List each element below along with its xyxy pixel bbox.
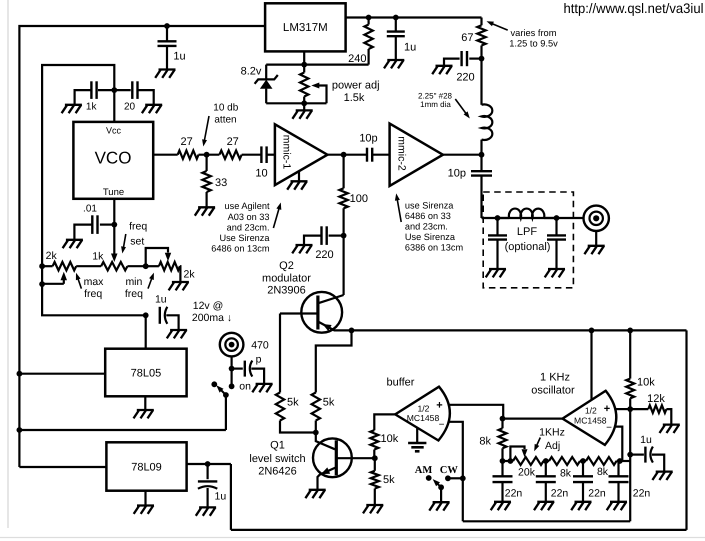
svg-text:8k: 8k xyxy=(560,468,572,480)
svg-text:10p: 10p xyxy=(359,133,377,145)
svg-text:22n: 22n xyxy=(588,488,606,500)
svg-text:22n: 22n xyxy=(551,488,569,500)
svg-text:2k: 2k xyxy=(46,250,58,262)
svg-text:+: + xyxy=(604,403,610,415)
svg-text:20k: 20k xyxy=(518,467,536,479)
svg-text:LPF: LPF xyxy=(517,226,537,238)
svg-text:−: − xyxy=(439,420,445,431)
svg-text:20: 20 xyxy=(124,102,136,113)
svg-text:VCO: VCO xyxy=(95,149,132,168)
svg-text:8.2v: 8.2v xyxy=(241,66,262,78)
svg-text:1u: 1u xyxy=(215,491,227,503)
svg-text:level switch: level switch xyxy=(249,453,305,465)
svg-text:22n: 22n xyxy=(505,488,523,500)
svg-text:240: 240 xyxy=(348,53,366,65)
svg-text:AM: AM xyxy=(415,465,433,476)
svg-text:varies from: varies from xyxy=(511,28,557,38)
svg-text:use Sirenza: use Sirenza xyxy=(405,200,454,210)
svg-text:67: 67 xyxy=(461,32,473,44)
svg-text:1u: 1u xyxy=(640,434,652,446)
svg-text:200ma ↓: 200ma ↓ xyxy=(192,312,232,324)
svg-text:1/2: 1/2 xyxy=(585,406,597,416)
svg-text:LM317M: LM317M xyxy=(283,22,328,34)
svg-text:1KHz: 1KHz xyxy=(539,427,565,439)
svg-text:Tune: Tune xyxy=(103,187,124,198)
svg-text:1u: 1u xyxy=(155,294,167,306)
svg-text:8k: 8k xyxy=(479,436,491,448)
svg-text:+: + xyxy=(436,400,442,412)
svg-text:p: p xyxy=(256,354,262,366)
svg-text:1/2: 1/2 xyxy=(418,404,430,414)
svg-text:Vcc: Vcc xyxy=(106,126,122,136)
svg-text:22n: 22n xyxy=(633,488,651,500)
svg-text:2k: 2k xyxy=(184,269,196,281)
svg-text:8k: 8k xyxy=(597,466,609,478)
svg-text:10k: 10k xyxy=(637,377,655,389)
svg-text:5k: 5k xyxy=(287,397,299,409)
svg-text:27: 27 xyxy=(180,136,192,148)
svg-text:10p: 10p xyxy=(448,168,466,180)
svg-text:.01: .01 xyxy=(83,204,97,215)
svg-text:33: 33 xyxy=(215,177,227,189)
svg-text:2N6426: 2N6426 xyxy=(258,466,297,478)
svg-text:Q2: Q2 xyxy=(279,260,294,272)
svg-text:6486 on 13cm: 6486 on 13cm xyxy=(211,244,270,254)
svg-text:12v @: 12v @ xyxy=(193,300,224,312)
svg-text:atten: atten xyxy=(214,115,236,126)
svg-text:470: 470 xyxy=(251,340,269,352)
svg-text:1mm dia: 1mm dia xyxy=(420,100,451,109)
svg-text:220: 220 xyxy=(456,72,474,84)
svg-text:1 KHz: 1 KHz xyxy=(540,372,570,384)
svg-text:mmic-1: mmic-1 xyxy=(281,135,293,170)
svg-text:freq: freq xyxy=(129,221,147,233)
svg-text:1.5k: 1.5k xyxy=(344,92,365,104)
svg-text:1u: 1u xyxy=(173,51,185,63)
svg-text:10k: 10k xyxy=(381,433,399,445)
svg-text:78L09: 78L09 xyxy=(131,462,162,474)
svg-text:6486 on 33: 6486 on 33 xyxy=(405,211,451,221)
svg-text:12k: 12k xyxy=(647,393,665,405)
svg-text:1k: 1k xyxy=(86,102,98,113)
svg-text:freq: freq xyxy=(84,288,102,300)
svg-text:A03 on 33: A03 on 33 xyxy=(228,212,270,222)
svg-text:http://www.qsl.net/va3iul: http://www.qsl.net/va3iul xyxy=(564,1,704,16)
svg-text:CW: CW xyxy=(440,465,459,476)
svg-text:220: 220 xyxy=(315,249,333,261)
svg-text:(optional): (optional) xyxy=(505,241,551,253)
svg-text:5k: 5k xyxy=(323,397,335,409)
svg-text:−: − xyxy=(606,423,612,434)
svg-text:Adj: Adj xyxy=(545,440,560,452)
svg-text:27: 27 xyxy=(227,136,239,148)
svg-text:use Agilent: use Agilent xyxy=(225,201,270,211)
svg-text:on: on xyxy=(239,381,251,393)
svg-text:MC1458: MC1458 xyxy=(574,415,607,425)
svg-text:mmic-2: mmic-2 xyxy=(396,136,408,171)
svg-text:power adj: power adj xyxy=(332,80,380,92)
svg-text:2N3906: 2N3906 xyxy=(267,285,306,297)
svg-text:and 23cm.: and 23cm. xyxy=(405,222,448,232)
svg-text:freq: freq xyxy=(125,288,143,300)
svg-text:min: min xyxy=(125,276,142,288)
svg-text:5k: 5k xyxy=(383,474,395,486)
svg-text:Use Sirenza: Use Sirenza xyxy=(219,233,270,243)
svg-text:1.25 to 9.5v: 1.25 to 9.5v xyxy=(509,39,558,49)
svg-text:set: set xyxy=(130,236,144,248)
svg-text:10: 10 xyxy=(255,168,267,180)
svg-text:buffer: buffer xyxy=(387,377,415,389)
svg-text:and 23cm.: and 23cm. xyxy=(227,222,270,232)
svg-text:1u: 1u xyxy=(404,42,416,54)
svg-text:oscillator: oscillator xyxy=(531,385,575,397)
svg-text:MC1458: MC1458 xyxy=(407,413,440,423)
svg-text:Q1: Q1 xyxy=(270,440,285,452)
svg-text:1k: 1k xyxy=(92,251,104,263)
svg-text:modulator: modulator xyxy=(262,273,311,285)
svg-text:100: 100 xyxy=(350,193,368,205)
svg-text:max: max xyxy=(84,276,105,288)
svg-text:78L05: 78L05 xyxy=(131,368,162,380)
svg-text:Use Sirenza: Use Sirenza xyxy=(405,232,456,242)
svg-text:10 db: 10 db xyxy=(213,103,238,114)
svg-text:6386 on 13cm: 6386 on 13cm xyxy=(405,243,464,253)
